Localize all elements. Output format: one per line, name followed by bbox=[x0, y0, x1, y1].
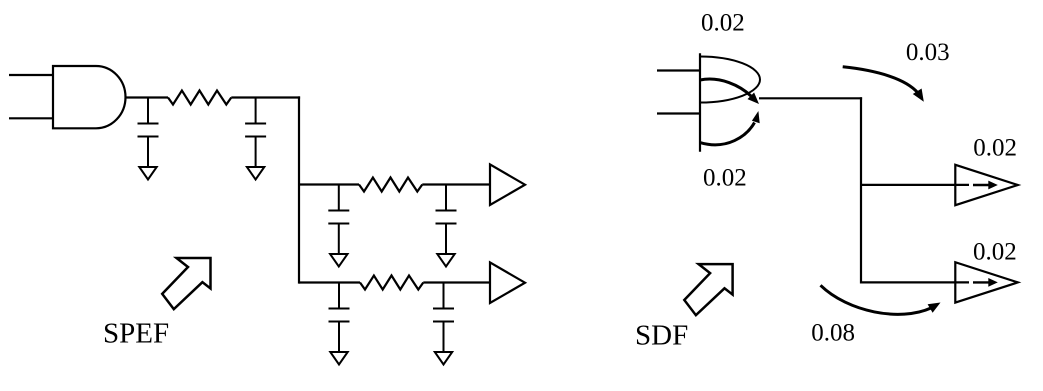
svg-text:0.03: 0.03 bbox=[906, 39, 950, 66]
svg-text:0.08: 0.08 bbox=[811, 320, 855, 347]
svg-text:0.02: 0.02 bbox=[973, 238, 1017, 265]
svg-text:SDF: SDF bbox=[635, 320, 688, 352]
svg-text:SPEF: SPEF bbox=[103, 318, 169, 350]
svg-text:0.02: 0.02 bbox=[703, 165, 747, 192]
svg-text:0.02: 0.02 bbox=[701, 10, 745, 37]
svg-text:0.02: 0.02 bbox=[973, 135, 1017, 162]
